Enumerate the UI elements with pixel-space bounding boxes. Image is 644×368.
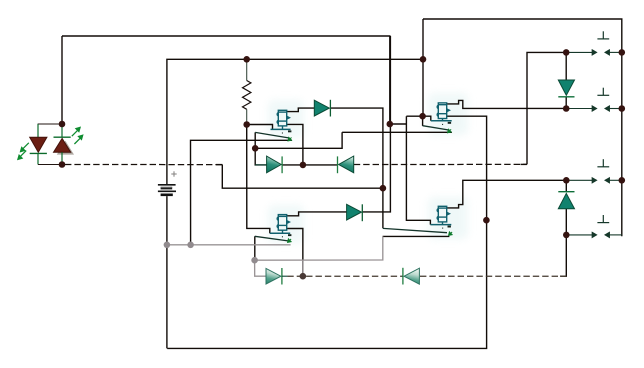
relay K4 NO arrow [449, 232, 453, 236]
node K2 coil left [419, 113, 426, 120]
wire K4 common line [383, 235, 450, 237]
node K1 pivot [252, 145, 259, 152]
node LED bottom [59, 161, 66, 168]
diode D4 (points down) [558, 80, 574, 97]
wire top rail from LED top to x=390 [62, 36, 390, 124]
wire battery minus vertical [166, 196, 168, 348]
wire LED top vertical [61, 36, 63, 124]
wire gray K3 node down to D6 anode [255, 260, 266, 276]
diode D7 [347, 204, 363, 221]
node battery minus gray [164, 242, 171, 249]
diode D8 (points left, light/selected) [403, 268, 420, 285]
node D4 top [563, 49, 570, 56]
relay K1 contact bar [271, 129, 292, 133]
wire D2 cathode to node to D3 [282, 164, 337, 166]
node battery rail / x423 [420, 56, 427, 63]
wire PB1 branch corner x=527 [527, 52, 566, 164]
wire K2 common line [342, 131, 452, 133]
wire dash-end stubs [216, 164, 566, 276]
wire K3 blade pivot vertical [254, 236, 256, 260]
relay K2 contact bar [431, 121, 452, 125]
wire K1 coil top jog to D1 [287, 108, 315, 112]
wire K2 node stub [422, 116, 424, 126]
wire K2 contact-bar jog from node [423, 116, 431, 121]
LED LED2 (right, cathode up) [54, 124, 75, 165]
wire dashed D8 to D5 node riser [420, 275, 566, 277]
diode D5 (points up) [558, 192, 574, 209]
node D6/D8 row [300, 273, 307, 280]
wire battery-plus rail y=59 [167, 59, 423, 184]
node D4 bottom [563, 105, 570, 112]
wire vertical x=423 from y=19 to relay K2 node [422, 19, 424, 116]
wire resistor node down to relay K3 coil [247, 125, 270, 234]
push button SW3 [566, 159, 622, 183]
wire dashed LED bottom rail [65, 164, 222, 166]
diode D3 (points left) [338, 156, 354, 173]
LED LED2 light arrows [72, 127, 83, 144]
halo washes (jpeg-like) [268, 93, 468, 243]
wire resistor node to K1 coil bar jog [247, 125, 273, 130]
wire vertical x=406.4 to relay K4 contact bar [406, 116, 430, 224]
relay K4 contact bar [430, 225, 451, 229]
push button SW4 [566, 215, 622, 237]
node D5 top [563, 177, 570, 184]
wire D7 cathode lead to vertical x=390 [362, 36, 390, 212]
wire K2 coil top jog to D4 node [447, 100, 566, 108]
node D5 bottom [563, 232, 570, 239]
diode D6 (light/selected) [266, 268, 287, 285]
wire node y=188 horizontal [222, 165, 383, 189]
node x390 y124 [387, 121, 394, 128]
wire D4 bottom lead [565, 97, 567, 109]
node rail SW2 [619, 105, 626, 112]
relay K4 blade [383, 228, 447, 232]
wire K1 coil right side down to D2/D3 node [287, 124, 303, 164]
node rail SW1 [619, 49, 626, 56]
node K1 rail gray [187, 242, 194, 249]
node rail SW3 [619, 177, 626, 184]
wire D5 bottom lead to PB5 node and dashed row [565, 209, 567, 277]
node D2/D3 [300, 162, 307, 169]
relay K4 coil [437, 206, 450, 224]
push button SW1 [566, 31, 622, 55]
relay K1 blade [255, 132, 288, 138]
wire node K2 to x=406.4 [406, 115, 422, 117]
node dots (junctions) [59, 49, 625, 238]
wire K1 pivot vertical to D2 row [255, 132, 267, 165]
wire dashed D3 to x=527 riser [354, 163, 527, 165]
wire top-right rail y=19 [423, 19, 622, 236]
relay K2 NO arrow [448, 129, 452, 133]
relay K2 coil [437, 103, 450, 121]
wire gray ground bus K3 common [167, 244, 291, 246]
push button SW2 [566, 88, 622, 111]
wire K1 pivot node over to D2/D3 node [255, 132, 342, 148]
relay K1 NO arrow [288, 137, 292, 141]
wire K2 coil right down the x=486 rail to bottom [167, 116, 486, 348]
node resistor top [243, 56, 250, 63]
diode D2 [255, 156, 282, 173]
relay K3 blade [255, 236, 288, 241]
LED LED1 light arrows [18, 143, 29, 160]
relay K3 contact bar [270, 233, 292, 237]
LED LED1 (left, cathode down) [30, 124, 62, 165]
wire dashed D6 cathode run to D8 [287, 275, 403, 277]
wire gray K3 pivot node to K4 common riser [255, 236, 383, 260]
diode D1 [314, 100, 330, 117]
battery BT1 [158, 171, 177, 196]
wire K3 coil top jog to D7 [287, 212, 347, 216]
wire D4 top lead [565, 52, 567, 80]
relay K2 blade [423, 126, 450, 130]
relay K3 coil [277, 215, 290, 234]
wire D1 cathode to vertical x=383 [330, 108, 383, 228]
wire K4 coil top jog up to PB4 row [447, 180, 566, 208]
wire node x390 to x406 at y=124 [390, 123, 407, 125]
node resistor bottom [243, 121, 250, 128]
wire K1 common pivot rail x=190.6 [191, 140, 292, 245]
wire K3 coil right side down to D6 node [287, 229, 303, 277]
node K3 pivot gray [251, 257, 258, 264]
node x486 K4 [483, 217, 490, 224]
relay K3 NO arrow [288, 239, 292, 243]
node y188 [380, 185, 387, 192]
wire D5 top lead [565, 180, 567, 191]
node LED top [59, 121, 66, 128]
wire gray D6 bypass riser [302, 260, 304, 276]
resistor R1 [243, 59, 251, 124]
relay K1 coil [277, 110, 290, 129]
